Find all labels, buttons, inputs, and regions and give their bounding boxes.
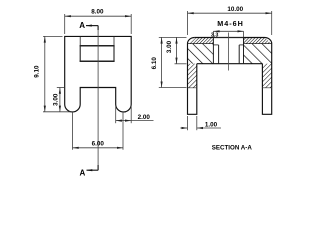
svg-text:M4-6H: M4-6H	[217, 19, 244, 28]
dim 3.00 left	[57, 88, 65, 112]
dim 3.00 section	[159, 37, 187, 63]
svg-text:A: A	[80, 168, 86, 177]
hole centre line	[228, 33, 230, 71]
section view: hatch boundary at wall bottom inside legs	[188, 87, 272, 89]
svg-text:3.00: 3.00	[166, 40, 173, 53]
dim 1.00	[180, 116, 221, 130]
svg-text:SECTION A-A: SECTION A-A	[212, 144, 253, 151]
section view: M4-6H threaded hole walls with chamfer shoulders	[213, 38, 243, 64]
dim 6.00 bottom	[73, 112, 124, 150]
dim 8.00 top	[65, 14, 132, 34]
svg-text:8.00: 8.00	[91, 8, 104, 15]
section view: channel outline (top slab + two legs)	[188, 38, 272, 115]
dim 10.00	[188, 11, 272, 35]
svg-text:9.10: 9.10	[34, 65, 41, 78]
cutting plane line A-A (vertical centre line)	[97, 26, 99, 171]
svg-text:3.00: 3.00	[53, 93, 60, 106]
section hatching: coarse slab blocks	[188, 44, 214, 64]
svg-text:6.10: 6.10	[151, 57, 158, 70]
cutting line arrowhead top	[86, 25, 92, 27]
section view: top band divider edge	[188, 43, 272, 45]
dim M4-6H	[213, 31, 243, 37]
front view: part body outline with two rounded bottom tabs	[65, 36, 132, 112]
front view: M4 tapped hole / counterbore recess rectangle	[80, 36, 115, 61]
svg-text:6.00: 6.00	[92, 141, 105, 148]
dim 2.00 right tab	[116, 106, 154, 124]
svg-text:1.00: 1.00	[205, 122, 218, 129]
svg-text:10.00: 10.00	[227, 6, 243, 13]
section hatching: fine top band	[189, 38, 213, 44]
svg-text:3.3: 3.3	[211, 33, 219, 39]
cutting line arrowhead bottom	[86, 169, 92, 171]
section hatching: leg blocks	[188, 64, 197, 88]
dim 9.10 left	[43, 36, 71, 111]
svg-text:A: A	[79, 21, 85, 30]
svg-text:2.00: 2.00	[138, 114, 151, 121]
dim 6.10 section	[159, 37, 187, 87]
section view: top edge seen across hole	[213, 37, 243, 39]
